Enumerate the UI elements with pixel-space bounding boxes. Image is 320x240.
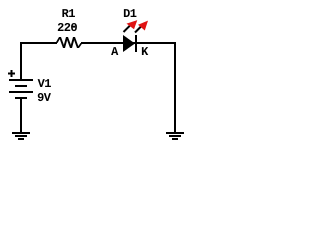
- wire right vertical (top-right corner down to ground): [174, 42, 176, 132]
- ground left bar 2: [15, 135, 27, 137]
- battery V1 long plate 2: [9, 91, 33, 93]
- resistor R1 zigzag body: [56, 37, 83, 48]
- battery V1 plus sign vertical bar: [11, 70, 13, 77]
- wire left vertical lower (battery - plate down to ground): [20, 98, 22, 132]
- wire top horizontal right segment (R1 to D1 to top-right corner): [81, 42, 176, 44]
- label D1: [124, 9, 137, 17]
- LED arrow 2 shaft: [135, 27, 141, 33]
- battery V1 plus sign horizontal bar: [8, 73, 15, 75]
- LED arrow 1 red head: [127, 20, 138, 29]
- label R1: [62, 9, 75, 17]
- ground right bar 1: [166, 132, 184, 134]
- ground right bar 3: [172, 138, 178, 140]
- wire top horizontal left segment (node between V1+ and R1): [20, 42, 57, 44]
- battery V1 short plate 1: [15, 85, 27, 87]
- ground left bar 3: [18, 138, 24, 140]
- wire left vertical upper (corner down to battery + plate): [20, 42, 22, 79]
- label A (anode pin): [111, 47, 118, 55]
- ground left bar 1: [12, 132, 30, 134]
- LED arrow 1 shaft: [124, 26, 131, 33]
- label K (cathode pin): [142, 47, 148, 55]
- LED D1 triangle (anode side): [123, 35, 135, 52]
- battery V1 short plate 2: [15, 97, 27, 99]
- label 220 (resistor value, slashed zero): [58, 23, 77, 31]
- LED arrow 2 red head: [138, 21, 148, 31]
- ground right bar 2: [169, 135, 181, 137]
- label V1: [38, 79, 51, 87]
- label 9V (battery value): [38, 93, 51, 101]
- battery V1 long plate 1: [9, 79, 33, 81]
- LED D1 cathode bar: [135, 35, 137, 52]
